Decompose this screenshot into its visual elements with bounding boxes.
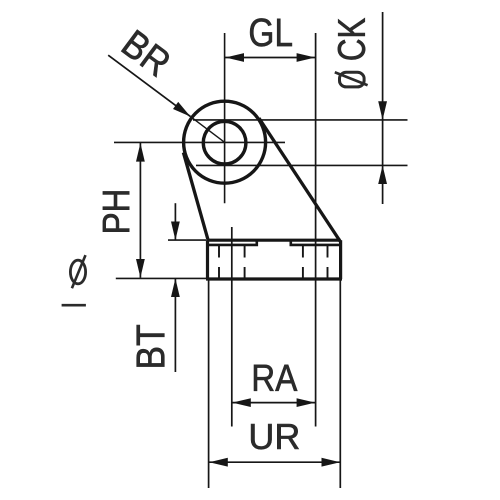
short reference line under diameter symbol: [62, 304, 86, 307]
inner circle (pin bore CK): [203, 121, 246, 164]
right sloped outline of bracket: [259, 118, 340, 241]
outer circle (lug eye): [184, 101, 266, 183]
label BT: [137, 325, 165, 367]
diameter symbol of CK label: rounded O: [340, 72, 365, 87]
dimension RA line: [232, 402, 315, 404]
dimension BT upper tail: [174, 203, 176, 240]
dimension BT lower tail: [174, 279, 176, 373]
base block outline: [206, 240, 342, 279]
left recess line with step: [209, 241, 257, 245]
dimension CK vertical line: [382, 12, 384, 204]
CK lower extension line: [196, 164, 408, 166]
label UR: [251, 424, 299, 449]
label BR: [121, 30, 169, 78]
BR arrowhead: [173, 102, 191, 117]
dimension UR line: [209, 461, 340, 463]
UR right extension line: [339, 280, 341, 488]
BR leader line: [108, 55, 190, 116]
base top extension line for BT: [168, 239, 206, 241]
right screw hole centerline / GL+RA extension: [315, 33, 317, 427]
BR leader thin continuation to center: [191, 117, 225, 143]
vertical centerline of lug bore: [224, 33, 226, 203]
label GL: [250, 18, 292, 46]
horizontal centerline of lug bore: [114, 141, 285, 143]
dimension GL line: [225, 57, 315, 59]
label CK: [338, 18, 365, 60]
hidden hole walls, right screw hole: [302, 246, 304, 278]
label RA: [254, 365, 297, 391]
left screw hole centerline / RA extension: [231, 227, 233, 427]
right recess line with step: [291, 241, 339, 245]
diameter symbol of CK label: slash: [335, 72, 368, 85]
label PH: [103, 191, 129, 231]
hidden hole walls, left screw hole: [218, 246, 220, 278]
UR left extension line: [208, 280, 210, 488]
base bottom extension line (left): [116, 277, 207, 279]
dimension PH line: [139, 143, 141, 278]
bore diameter symbol: ellipse: [70, 260, 85, 284]
left sloped outline of bracket: [183, 153, 208, 242]
bore diameter symbol: slash: [72, 255, 86, 288]
CK upper extension line: [193, 119, 408, 121]
